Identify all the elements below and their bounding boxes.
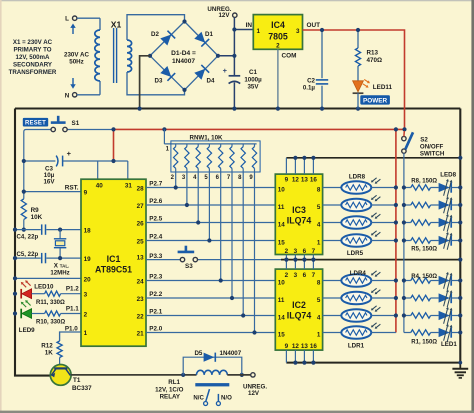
svg-text:18: 18 <box>84 228 92 235</box>
svg-text:LDR8: LDR8 <box>349 174 366 181</box>
svg-text:N: N <box>65 92 70 99</box>
svg-text:16V: 16V <box>43 179 55 186</box>
svg-text:27: 27 <box>137 203 145 210</box>
svg-text:10: 10 <box>278 279 286 286</box>
svg-text:1: 1 <box>317 331 321 338</box>
svg-text:16: 16 <box>310 177 318 184</box>
svg-text:POWER: POWER <box>363 98 388 105</box>
svg-text:2: 2 <box>285 248 289 255</box>
svg-text:20: 20 <box>84 276 92 283</box>
svg-text:ILQ74: ILQ74 <box>287 216 312 226</box>
svg-text:X1 = 230V AC: X1 = 230V AC <box>13 39 53 46</box>
svg-text:P2.2: P2.2 <box>149 291 162 298</box>
svg-text:P2.7: P2.7 <box>149 181 162 188</box>
svg-text:0.1µ: 0.1µ <box>303 84 316 91</box>
svg-text:3: 3 <box>294 248 298 255</box>
svg-text:13: 13 <box>301 177 309 184</box>
svg-text:P3.3: P3.3 <box>149 253 162 260</box>
svg-text:LED1: LED1 <box>441 341 457 348</box>
svg-text:C1: C1 <box>249 69 257 76</box>
svg-text:28: 28 <box>137 186 145 193</box>
svg-text:SECONDARY: SECONDARY <box>13 62 52 69</box>
svg-text:4: 4 <box>317 221 321 228</box>
svg-text:1: 1 <box>257 28 261 35</box>
svg-text:15: 15 <box>278 239 286 246</box>
svg-text:P2.1: P2.1 <box>149 309 162 316</box>
svg-text:LED11: LED11 <box>373 84 393 91</box>
svg-text:3: 3 <box>296 28 300 35</box>
svg-text:BC337: BC337 <box>72 385 92 392</box>
svg-text:35V: 35V <box>247 84 259 91</box>
svg-text:1: 1 <box>84 330 88 337</box>
svg-text:P1.2: P1.2 <box>66 286 79 293</box>
svg-text:16: 16 <box>310 343 318 350</box>
svg-text:COM: COM <box>282 53 297 60</box>
svg-text:40: 40 <box>96 183 104 190</box>
svg-text:4: 4 <box>317 314 321 321</box>
svg-text:D1: D1 <box>205 31 213 38</box>
svg-text:D5: D5 <box>194 350 202 357</box>
svg-text:12V: 12V <box>218 12 230 19</box>
svg-text:8: 8 <box>317 186 321 193</box>
svg-text:14: 14 <box>278 314 286 321</box>
svg-text:1N4007: 1N4007 <box>172 58 195 65</box>
svg-text:12: 12 <box>292 343 300 350</box>
svg-text:8: 8 <box>317 279 321 286</box>
svg-text:P2.0: P2.0 <box>149 326 162 333</box>
svg-text:LED10: LED10 <box>34 283 54 290</box>
svg-text:R4, 150Ω: R4, 150Ω <box>411 274 437 280</box>
svg-text:+: + <box>223 66 228 75</box>
svg-text:C4, 22p: C4, 22p <box>17 233 39 240</box>
svg-text:12V, 500mA: 12V, 500mA <box>16 54 50 61</box>
svg-text:3: 3 <box>84 292 88 299</box>
svg-text:2: 2 <box>276 43 280 50</box>
svg-text:2: 2 <box>84 312 88 319</box>
svg-text:21: 21 <box>137 331 145 338</box>
svg-text:S1: S1 <box>72 120 80 127</box>
svg-text:IC4: IC4 <box>271 20 285 30</box>
svg-text:LED8: LED8 <box>440 172 456 179</box>
svg-text:R13: R13 <box>367 50 379 57</box>
svg-text:7805: 7805 <box>268 32 288 42</box>
svg-text:10K: 10K <box>31 214 43 221</box>
svg-text:26: 26 <box>137 221 145 228</box>
svg-text:10: 10 <box>278 186 286 193</box>
svg-text:23: 23 <box>137 296 145 303</box>
svg-text:1: 1 <box>317 239 321 246</box>
svg-text:13: 13 <box>301 343 309 350</box>
svg-text:IC3: IC3 <box>292 205 306 215</box>
svg-text:24: 24 <box>137 279 145 286</box>
svg-text:T1: T1 <box>73 377 81 384</box>
svg-text:2: 2 <box>285 272 289 279</box>
svg-text:IC1: IC1 <box>107 254 121 264</box>
svg-text:P2.4: P2.4 <box>149 234 162 241</box>
svg-text:P1.1: P1.1 <box>66 305 79 312</box>
svg-text:RESET: RESET <box>25 121 46 127</box>
svg-text:9: 9 <box>285 343 289 350</box>
svg-text:P2.6: P2.6 <box>149 198 162 205</box>
svg-text:LED9: LED9 <box>19 327 35 334</box>
svg-text:12V, 1C/O: 12V, 1C/O <box>155 386 184 393</box>
svg-text:19: 19 <box>84 256 92 263</box>
svg-text:IC2: IC2 <box>292 300 306 310</box>
svg-text:RNW1, 10K: RNW1, 10K <box>189 135 223 142</box>
svg-text:X1: X1 <box>111 19 122 29</box>
svg-text:7: 7 <box>312 248 316 255</box>
svg-text:RELAY: RELAY <box>160 394 181 401</box>
svg-text:R10, 330Ω: R10, 330Ω <box>36 320 65 326</box>
svg-text:3: 3 <box>294 272 298 279</box>
svg-text:9: 9 <box>84 190 88 197</box>
svg-text:OUT: OUT <box>307 22 321 29</box>
svg-text:12V: 12V <box>248 390 260 397</box>
svg-text:R1, 150Ω: R1, 150Ω <box>411 340 437 346</box>
svg-text:C2: C2 <box>307 77 315 84</box>
svg-text:1K: 1K <box>45 350 54 357</box>
svg-text:230V AC: 230V AC <box>64 52 89 59</box>
svg-text:D1-D4 =: D1-D4 = <box>171 50 196 57</box>
svg-text:L: L <box>65 16 69 23</box>
svg-text:6: 6 <box>303 272 307 279</box>
svg-text:+: + <box>67 149 72 158</box>
svg-text:R5, 150Ω: R5, 150Ω <box>411 247 437 253</box>
svg-text:12MHz: 12MHz <box>50 270 69 277</box>
svg-text:LDR5: LDR5 <box>347 250 364 257</box>
svg-text:TAL.: TAL. <box>60 263 69 268</box>
svg-text:D4: D4 <box>207 77 215 84</box>
svg-text:R8, 150Ω: R8, 150Ω <box>411 178 437 184</box>
svg-text:25: 25 <box>137 239 145 246</box>
svg-text:9: 9 <box>285 177 289 184</box>
svg-text:1N4007: 1N4007 <box>220 350 242 357</box>
svg-text:LDR1: LDR1 <box>348 342 365 349</box>
svg-text:15: 15 <box>278 331 286 338</box>
svg-text:12: 12 <box>292 177 300 184</box>
svg-text:11: 11 <box>278 297 285 304</box>
svg-text:5: 5 <box>317 204 321 211</box>
svg-text:N/C: N/C <box>193 394 204 401</box>
svg-text:14: 14 <box>278 221 286 228</box>
svg-text:31: 31 <box>125 183 133 190</box>
svg-text:RL1: RL1 <box>168 379 180 386</box>
svg-text:AT89C51: AT89C51 <box>95 265 132 275</box>
svg-text:N/O: N/O <box>221 394 232 401</box>
svg-text:PRIMARY TO: PRIMARY TO <box>13 47 51 54</box>
svg-text:R12: R12 <box>41 343 53 350</box>
svg-text:S3: S3 <box>185 263 193 270</box>
svg-text:R11, 330Ω: R11, 330Ω <box>36 300 65 306</box>
svg-text:50Hz: 50Hz <box>69 59 83 66</box>
svg-text:470Ω: 470Ω <box>367 57 383 64</box>
svg-text:C5, 22p: C5, 22p <box>17 251 39 258</box>
svg-text:13: 13 <box>137 254 145 261</box>
svg-text:22: 22 <box>137 314 145 321</box>
svg-text:IN: IN <box>246 22 253 29</box>
svg-text:P2.5: P2.5 <box>149 216 162 223</box>
svg-text:D3: D3 <box>155 77 163 84</box>
svg-text:5: 5 <box>317 297 321 304</box>
svg-text:LDR4: LDR4 <box>350 270 367 277</box>
svg-text:P2.3: P2.3 <box>149 274 162 281</box>
svg-text:D2: D2 <box>151 31 159 38</box>
svg-text:R9: R9 <box>31 207 40 214</box>
svg-text:6: 6 <box>303 248 307 255</box>
svg-text:TRANSFORMER: TRANSFORMER <box>9 69 57 76</box>
svg-text:1000µ: 1000µ <box>244 76 262 83</box>
svg-text:RST.: RST. <box>65 184 79 191</box>
svg-text:SWITCH: SWITCH <box>420 151 445 158</box>
svg-text:7: 7 <box>312 272 316 279</box>
svg-text:ILQ74: ILQ74 <box>287 311 312 321</box>
svg-text:11: 11 <box>278 204 285 211</box>
